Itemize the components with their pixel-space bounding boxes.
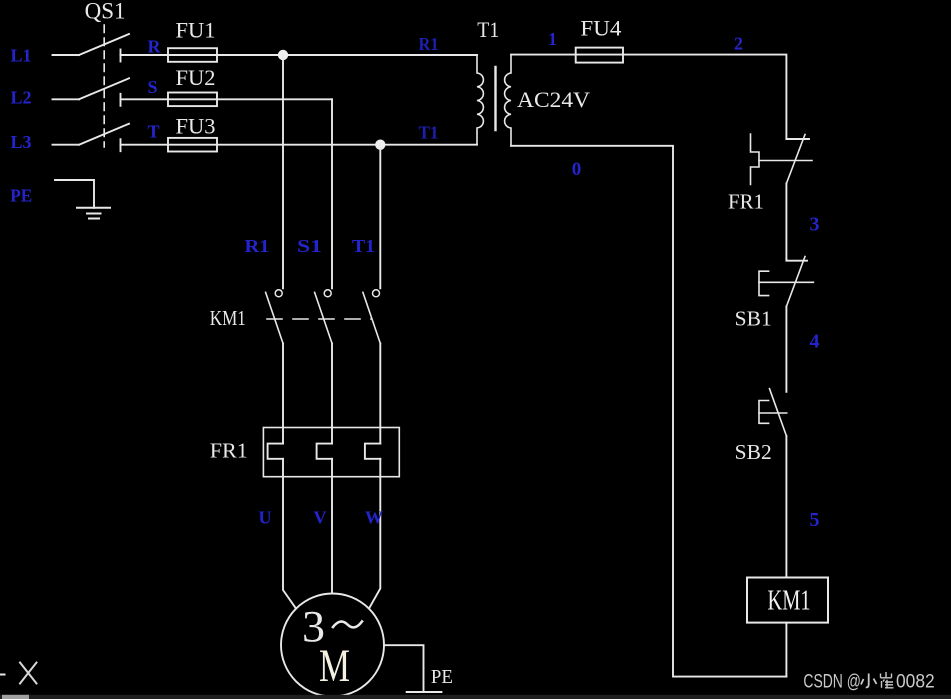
watermark glyph xiao [861,674,877,688]
wire row1 R to transformer [217,54,477,56]
svg-text:FU3: FU3 [176,114,216,139]
contactor KM1 pole 3 blade [363,292,380,343]
wire row2 S [217,98,332,100]
wire row1 to FU1 [121,54,169,56]
ground symbol motor PE [407,691,442,693]
svg-text:T1: T1 [477,17,499,42]
wire V upper [331,343,333,443]
wire L1 input [53,54,80,56]
motor M circle [281,594,384,697]
coil KM1 box [747,578,828,623]
watermark glyph cui [881,672,894,688]
fuse FU1 [168,48,217,62]
wire W lower [369,459,380,609]
wire row2 to FU2 [121,98,169,100]
pushbutton SB1 top terminal [786,260,807,261]
FR1 heater element 2 [317,444,332,459]
svg-text:R: R [148,37,162,57]
svg-text:QS1: QS1 [85,0,126,24]
UCS icon axis [0,674,5,676]
switch QS1 linkage dashed [103,25,105,147]
svg-text:5: 5 [810,509,820,531]
wire secondary top to FU4 [511,54,576,56]
wire PE input [55,180,94,208]
svg-text:PE: PE [10,186,32,206]
ground symbol PE left [77,207,110,209]
wire net 4 [785,307,787,392]
svg-text:M: M [319,640,350,692]
wire net 3 [785,184,787,260]
wire R1 vertical [282,55,284,288]
motor tilde mark [333,622,362,628]
svg-text:FR1: FR1 [728,190,764,214]
transformer T1 primary [477,55,483,145]
svg-text:FU1: FU1 [176,18,216,43]
svg-text:0082: 0082 [896,672,935,693]
svg-text:SB1: SB1 [735,307,772,331]
svg-text:S1: S1 [297,236,322,256]
svg-text:KM1: KM1 [768,585,811,617]
switch QS1 pole 2 fixed contact [120,94,122,106]
svg-text:U: U [259,508,272,528]
svg-text:T1: T1 [352,236,375,256]
switch QS1 pole 1 fixed contact [120,50,122,62]
svg-text:S: S [148,77,158,97]
wire motor PE [384,645,424,691]
FR1 heater element 1 [268,444,283,459]
pushbutton SB2 actuator [759,401,769,424]
UCS icon X glyph [20,663,37,684]
wire L2 input [53,98,80,100]
contactor KM1 linkage dashed [267,318,372,320]
transformer T1 secondary [505,55,511,146]
node junction T1 [375,140,385,150]
switch QS1 pole 2 blade [79,78,129,99]
svg-text:L3: L3 [11,132,32,152]
thermal relay FR1 contact blade [786,135,805,184]
svg-text:W: W [365,508,383,528]
wire net 5 [785,436,787,578]
fuse FU3 [168,138,217,152]
svg-text:0: 0 [572,159,582,180]
svg-text:R1: R1 [245,236,270,256]
wire V lower [331,459,333,594]
svg-text:L1: L1 [11,46,32,66]
thermal overload FR1 box [263,428,399,477]
pushbutton SB2 crossbar [759,412,787,414]
wire net 0 [511,146,786,677]
svg-text:T: T [148,122,160,142]
thermal relay FR1 contact top terminal [786,138,809,140]
fuse FU4 [576,48,623,63]
wire S1 vertical [331,99,333,288]
svg-text:V: V [314,508,327,528]
switch QS1 pole 1 blade [79,34,129,55]
pushbutton SB1 crossbar [759,281,813,283]
contactor KM1 pole 2 blade [315,292,332,343]
svg-text:FR1: FR1 [210,439,248,463]
svg-text:SB2: SB2 [735,440,772,464]
svg-text:R1: R1 [419,34,439,54]
contactor KM1 pole 1 blade [266,292,283,343]
wire W upper [379,343,381,443]
svg-text:FU4: FU4 [580,16,621,41]
svg-text:FU2: FU2 [176,65,216,90]
svg-text:KM1: KM1 [210,306,246,330]
switch QS1 pole 3 fixed contact [120,139,122,151]
wire coil KM1 bottom [785,623,787,677]
pushbutton SB1 blade [786,257,805,307]
pushbutton SB2 blade [770,389,787,436]
contactor KM1 pole 3 terminal circle [373,290,380,297]
fuse FU2 [168,93,217,107]
svg-text:PE: PE [431,666,453,688]
pushbutton SB1 actuator [759,271,769,295]
thermal relay FR1 actuator bracket [751,134,760,185]
FR1 heater element 3 [365,444,380,459]
contactor KM1 pole 2 terminal circle [324,290,331,297]
wire net 2 top [623,55,786,139]
wire row3 to FU3 [121,144,169,146]
switch QS1 pole 3 blade [79,124,129,145]
node junction R1 [278,50,288,60]
wire L3 input [53,144,80,146]
wire U upper [282,343,284,443]
transformer T1 core [494,67,496,130]
svg-text:CSDN @: CSDN @ [803,672,861,693]
wire U lower [283,459,296,609]
watermark CSDN [803,672,934,693]
svg-text:AC24V: AC24V [517,87,590,112]
status bar [0,695,951,699]
svg-text:2: 2 [734,34,743,54]
thermal relay FR1 crossbar [759,160,812,162]
svg-text:1: 1 [548,29,557,49]
svg-text:4: 4 [810,331,820,353]
wire T1 vertical [379,145,381,289]
wire row3 T to transformer [217,144,477,146]
svg-text:T1: T1 [419,123,439,143]
svg-text:3: 3 [810,214,820,236]
svg-text:L2: L2 [11,88,32,108]
contactor KM1 pole 1 terminal circle [275,290,282,297]
